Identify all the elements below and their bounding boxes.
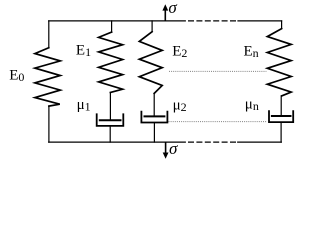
wire bottom bar solid right xyxy=(238,141,282,143)
dashpot mu1 cup xyxy=(97,113,124,126)
svg-text:μn: μn xyxy=(245,97,259,114)
dashpot mu2 cup xyxy=(141,111,167,123)
wire E1 bottom lead xyxy=(109,126,111,142)
arrow sigma bottom xyxy=(163,142,169,159)
spring E2 xyxy=(139,32,162,94)
wire top bar solid left xyxy=(49,20,186,22)
spring E0 xyxy=(35,48,60,106)
svg-text:En: En xyxy=(244,44,259,61)
dashpot mun piston plate xyxy=(271,115,292,117)
svg-text:E2: E2 xyxy=(172,44,187,61)
wire E2 bottom lead xyxy=(153,123,155,143)
wire top bar solid right xyxy=(238,20,282,22)
wire E1 top lead xyxy=(111,21,113,32)
svg-text:σ: σ xyxy=(169,139,178,158)
wire E2 top lead xyxy=(151,21,153,32)
dashpot mun cup xyxy=(269,110,293,122)
dashpot mu2 piston plate xyxy=(144,115,166,117)
spring En xyxy=(267,29,291,96)
svg-text:μ2: μ2 xyxy=(173,97,187,114)
svg-text:μ1: μ1 xyxy=(77,97,91,114)
dashpot mu1 piston plate xyxy=(99,119,122,121)
spring E1 xyxy=(99,32,123,92)
svg-text:σ: σ xyxy=(168,0,177,17)
svg-text:E0: E0 xyxy=(9,67,24,84)
wire En bottom lead xyxy=(280,122,282,142)
wire E0 bottom lead xyxy=(48,106,50,142)
wire E0 top lead xyxy=(48,21,50,48)
wire E1 piston rod xyxy=(109,93,111,121)
wire bottom bar dashed xyxy=(189,141,236,143)
wire top bar dashed xyxy=(189,20,236,22)
svg-text:E1: E1 xyxy=(76,42,91,59)
wire En piston rod xyxy=(280,96,282,116)
arrow sigma top xyxy=(162,4,168,21)
wire E2 piston rod xyxy=(153,93,155,116)
wire bottom bar solid left xyxy=(49,141,186,143)
wire En top lead xyxy=(281,21,283,29)
continuation dotted line lower xyxy=(169,121,268,123)
continuation dotted line upper xyxy=(169,70,266,72)
